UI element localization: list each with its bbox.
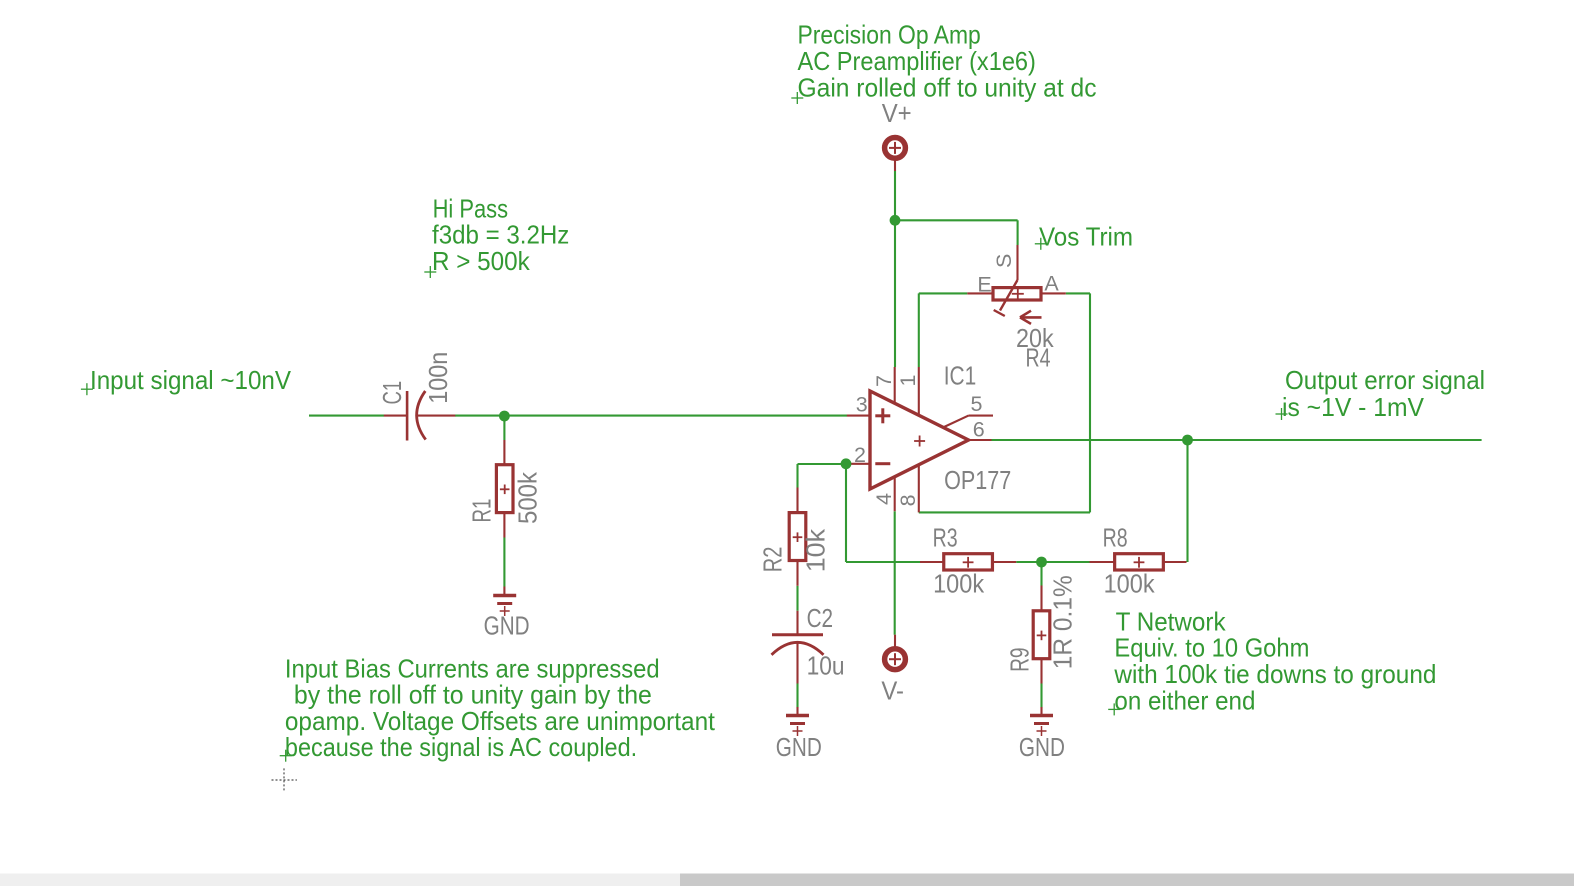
svg-text:1: 1 [896, 375, 920, 387]
svg-text:Output error signal: Output error signal [1285, 365, 1485, 395]
svg-text:IC1: IC1 [944, 360, 977, 390]
svg-text:R2: R2 [758, 547, 788, 573]
svg-text:6: 6 [973, 418, 985, 442]
svg-text:V-: V- [881, 676, 904, 706]
svg-text:V+: V+ [882, 98, 912, 128]
svg-text:on either end: on either end [1114, 685, 1255, 715]
svg-text:E: E [977, 272, 991, 296]
svg-text:8: 8 [896, 494, 920, 506]
svg-text:GND: GND [1019, 732, 1065, 762]
svg-text:Input signal ~10nV: Input signal ~10nV [90, 365, 292, 395]
svg-text:100k: 100k [933, 569, 985, 599]
svg-text:is ~1V - 1mV: is ~1V - 1mV [1282, 392, 1425, 422]
svg-text:C2: C2 [807, 603, 834, 633]
svg-text:R > 500k: R > 500k [432, 246, 531, 276]
svg-text:GND: GND [484, 611, 530, 641]
svg-text:C1: C1 [377, 381, 407, 405]
svg-text:100k: 100k [1104, 568, 1156, 598]
svg-text:R8: R8 [1103, 522, 1128, 552]
svg-text:10k: 10k [801, 528, 831, 572]
svg-text:R3: R3 [933, 523, 958, 553]
svg-text:500k: 500k [513, 471, 543, 524]
svg-text:10u: 10u [807, 650, 845, 680]
svg-text:GND: GND [776, 732, 822, 762]
svg-text:100n: 100n [423, 352, 453, 404]
svg-text:OP177: OP177 [944, 465, 1011, 495]
svg-text:Gain rolled off to unity at dc: Gain rolled off to unity at dc [798, 72, 1097, 102]
svg-text:4: 4 [872, 493, 896, 505]
svg-text:because the signal is AC coupl: because the signal is AC coupled. [285, 732, 637, 762]
svg-text:7: 7 [872, 375, 896, 387]
svg-text:Vos Trim: Vos Trim [1039, 222, 1133, 252]
svg-text:R4: R4 [1026, 343, 1051, 373]
svg-text:2: 2 [854, 443, 866, 467]
svg-text:R9: R9 [1005, 647, 1035, 672]
svg-text:A: A [1044, 271, 1059, 295]
svg-text:R1: R1 [467, 499, 497, 523]
svg-text:1R 0.1%: 1R 0.1% [1048, 575, 1078, 669]
svg-text:5: 5 [971, 392, 983, 416]
svg-text:3: 3 [856, 393, 868, 417]
svg-text:S: S [992, 254, 1016, 268]
